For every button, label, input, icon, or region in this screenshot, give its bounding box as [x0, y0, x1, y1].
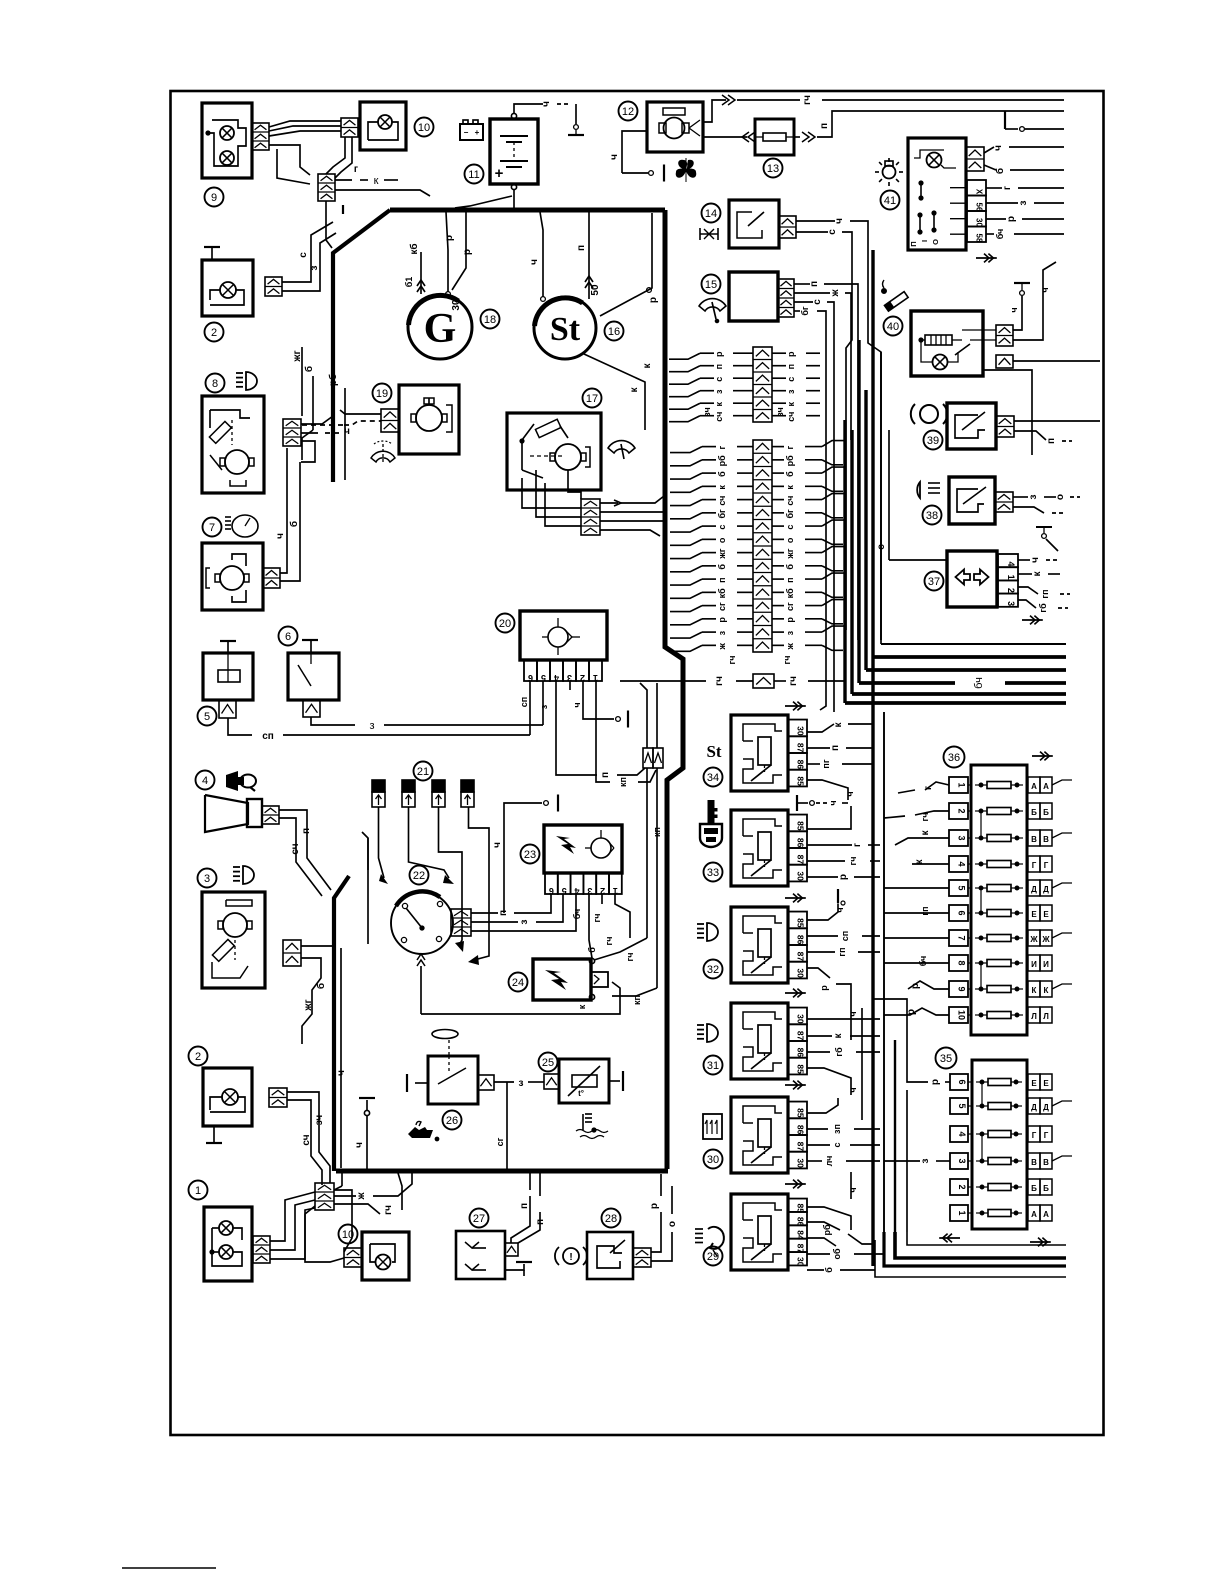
svg-text:1: 1: [957, 1210, 967, 1215]
svg-text:−: −: [464, 128, 469, 137]
svg-text:сп: сп: [840, 931, 850, 941]
svg-text:87: 87: [796, 1142, 806, 1152]
wires to G: [404, 212, 473, 311]
label St for relay 34: [706, 742, 721, 761]
svg-text:б: б: [994, 168, 1006, 174]
svg-text:ч: ч: [275, 533, 286, 539]
svg-text:к: к: [374, 175, 379, 187]
connector X5: [219, 700, 236, 718]
svg-text:30: 30: [796, 968, 806, 978]
connector X27: [505, 1243, 518, 1256]
chevron mark: [785, 702, 806, 711]
svg-text:58: 58: [975, 234, 984, 243]
svg-text:р: р: [785, 617, 795, 623]
svg-text:1: 1: [1006, 575, 1016, 580]
svg-text:ж: ж: [830, 289, 841, 298]
fog lamp icon 29: [695, 1227, 724, 1256]
ground 38: [1036, 527, 1058, 551]
svg-text:Г: Г: [1032, 1131, 1037, 1140]
svg-text:30: 30: [796, 871, 806, 881]
svg-text:п: п: [600, 772, 611, 778]
svg-text:87: 87: [796, 743, 806, 753]
label 15: [702, 275, 721, 294]
relay 29: [731, 1194, 807, 1270]
svg-text:р: р: [714, 351, 724, 357]
svg-text:ч: ч: [848, 1011, 858, 1016]
svg-text:б1: б1: [404, 277, 414, 288]
svg-text:1: 1: [195, 1185, 201, 1197]
battery icon: [460, 120, 483, 140]
svg-text:В: В: [1031, 1158, 1037, 1167]
label 10 lower: [339, 1225, 358, 1244]
svg-text:зч: зч: [314, 1115, 325, 1126]
svg-text:37: 37: [928, 576, 940, 588]
svg-text:3: 3: [1006, 601, 1016, 606]
svg-text:з: з: [1018, 200, 1029, 205]
svg-text:А: А: [1031, 782, 1037, 791]
wires 28 r o: [649, 1174, 678, 1261]
svg-text:жг: жг: [717, 548, 727, 559]
svg-text:кп: кп: [618, 777, 628, 787]
svg-text:к: к: [786, 401, 796, 406]
svg-text:30: 30: [707, 1154, 719, 1166]
svg-text:Л: Л: [1031, 1012, 1037, 1021]
ground 26: [406, 1074, 408, 1092]
svg-text:4: 4: [957, 1131, 967, 1136]
svg-text:+: +: [475, 128, 480, 137]
svg-text:сч: сч: [717, 496, 727, 506]
svg-text:б: б: [315, 983, 327, 989]
svg-text:16: 16: [608, 326, 620, 338]
wires relay 33: [807, 806, 880, 880]
fuse box 35: [950, 1060, 1072, 1229]
connector X9: [252, 123, 269, 150]
horn icon: [226, 771, 256, 791]
svg-text:3: 3: [957, 835, 967, 840]
wire 12 to 13: [703, 95, 1064, 142]
svg-text:с: с: [785, 525, 795, 530]
hazard switch 37: [947, 551, 997, 607]
label 39: [924, 431, 943, 450]
label 34: [704, 768, 723, 787]
svg-text:30: 30: [796, 726, 806, 736]
wires 37: [1018, 557, 1070, 613]
connector X1: [253, 1236, 270, 1263]
label 28: [602, 1209, 621, 1228]
svg-text:сп: сп: [519, 697, 529, 707]
connector X19: [381, 409, 399, 432]
svg-text:гп: гп: [920, 906, 930, 915]
label 3: [198, 869, 217, 888]
svg-text:сч: сч: [714, 412, 724, 422]
chevron mark: [785, 1180, 806, 1189]
label 29: [704, 1247, 723, 1266]
svg-text:гч: гч: [920, 813, 930, 822]
svg-text:с: с: [832, 1142, 842, 1147]
connector X38: [995, 492, 1013, 512]
svg-text:з: з: [785, 630, 795, 635]
svg-text:сч: сч: [301, 1134, 312, 1145]
svg-text:Е: Е: [1043, 910, 1049, 919]
label 16: [605, 322, 624, 341]
svg-text:4: 4: [957, 861, 967, 866]
horn 4: [205, 795, 262, 832]
svg-text:А: А: [1043, 782, 1049, 791]
svg-text:3: 3: [957, 1158, 967, 1163]
label 19: [373, 384, 392, 403]
connector X8: [283, 419, 301, 446]
svg-text:!: !: [569, 1252, 572, 1263]
tail lamp unit 1: [204, 1207, 252, 1281]
connector X6: [303, 700, 320, 717]
svg-text:б: б: [824, 1267, 834, 1273]
wire sp: [228, 718, 530, 742]
connector X14: [779, 216, 796, 238]
connector X25: [544, 1074, 559, 1089]
label 17: [583, 389, 602, 408]
svg-text:41: 41: [884, 195, 896, 207]
svg-text:жг: жг: [785, 548, 795, 559]
svg-text:St: St: [706, 742, 721, 761]
svg-text:30: 30: [451, 299, 462, 311]
battery wires: [455, 101, 584, 208]
svg-text:р: р: [819, 985, 829, 991]
svg-text:ч: ч: [609, 154, 620, 160]
connector stack bottom: [315, 1183, 334, 1210]
wire harness main bundle outline: [333, 210, 683, 1171]
svg-text:ч: ч: [828, 800, 838, 805]
relay 30: [731, 1097, 807, 1173]
svg-text:П: П: [909, 241, 918, 246]
svg-text:I: I: [920, 240, 929, 242]
wire gch: [334, 1173, 402, 1215]
wires from 3: [301, 832, 368, 1044]
svg-text:к: к: [577, 1004, 587, 1009]
svg-text:б: б: [587, 947, 597, 953]
svg-text:85: 85: [796, 1108, 806, 1118]
svg-text:Е: Е: [1043, 1079, 1049, 1088]
svg-text:39: 39: [927, 435, 939, 447]
svg-text:р: р: [786, 351, 796, 357]
svg-text:Е: Е: [1031, 910, 1037, 919]
long wire verticals: [820, 352, 907, 1258]
svg-text:29: 29: [707, 1251, 719, 1263]
label 11: [465, 165, 484, 184]
svg-text:гп: гп: [1040, 589, 1050, 598]
svg-text:Ж: Ж: [1041, 935, 1050, 944]
svg-text:ч: ч: [993, 145, 1004, 151]
svg-text:б: б: [785, 471, 795, 477]
svg-text:13: 13: [767, 163, 779, 175]
heater icon 30: [703, 1114, 722, 1139]
svg-text:23: 23: [524, 849, 536, 861]
wires from 7: [275, 448, 300, 581]
label 14: [702, 204, 721, 223]
icon headlight: [236, 372, 257, 390]
svg-text:с: с: [786, 377, 796, 382]
svg-text:11: 11: [468, 169, 479, 181]
svg-text:гч: гч: [788, 676, 799, 686]
svg-text:к: к: [717, 485, 727, 490]
connector X2l: [269, 1088, 287, 1107]
svg-text:14: 14: [705, 208, 717, 220]
inline connector gch: [620, 674, 845, 688]
main feed wires vertical bundle: [845, 250, 881, 1266]
dipstick oval: [432, 1030, 458, 1057]
label 1: [189, 1181, 208, 1200]
svg-text:сг: сг: [785, 602, 795, 611]
wires 20 cells: [519, 681, 656, 787]
wires 14 ch s: [796, 218, 881, 640]
svg-text:2: 2: [195, 1051, 201, 1063]
connector X2u: [265, 277, 282, 296]
wire p to 27: [511, 1173, 546, 1243]
connector X3: [283, 940, 301, 966]
svg-text:з: з: [309, 265, 320, 270]
connector strip A: [669, 347, 820, 422]
switch unit 5: [203, 653, 253, 700]
svg-text:ж: ж: [785, 643, 795, 651]
svg-text:ч: ч: [529, 259, 540, 265]
wires from 8: [292, 347, 350, 480]
svg-text:п: п: [785, 577, 795, 582]
svg-text:с: с: [298, 252, 309, 258]
label 35: [936, 1048, 957, 1069]
svg-text:30: 30: [796, 1014, 806, 1024]
svg-text:10: 10: [342, 1229, 354, 1241]
svg-text:г: г: [1002, 186, 1013, 190]
wires 40: [983, 262, 1100, 455]
label 30: [704, 1150, 723, 1169]
ground bar 25: [622, 1071, 624, 1091]
spark plugs 21: [372, 780, 474, 807]
footer mark line: [122, 1567, 216, 1569]
svg-text:ч: ч: [848, 1187, 858, 1192]
fuse 13: [755, 119, 794, 155]
svg-text:28: 28: [605, 1213, 617, 1225]
svg-text:В: В: [1043, 1158, 1049, 1167]
svg-text:г: г: [923, 786, 934, 790]
wires relay 32: [807, 904, 880, 1040]
svg-text:32: 32: [707, 964, 719, 976]
svg-text:р: р: [838, 874, 849, 880]
wire s vertical: [876, 430, 947, 560]
svg-text:г: г: [852, 843, 863, 847]
svg-text:рб: рб: [785, 455, 795, 466]
svg-text:В: В: [1031, 835, 1037, 844]
plug wires: [379, 807, 490, 965]
wires into 35: [874, 999, 950, 1163]
svg-text:кп: кп: [632, 995, 642, 1005]
svg-text:кб: кб: [785, 588, 795, 599]
svg-text:А: А: [1031, 1210, 1037, 1219]
svg-text:26: 26: [446, 1115, 458, 1127]
svg-text:жг: жг: [303, 999, 314, 1011]
ground above 2: [204, 247, 220, 260]
svg-text:И: И: [1043, 960, 1049, 969]
svg-text:сг: сг: [495, 1137, 505, 1146]
label 26: [443, 1111, 462, 1130]
svg-text:3: 3: [587, 886, 592, 896]
svg-text:t°: t°: [578, 1089, 584, 1098]
svg-text:ч: ч: [572, 702, 582, 707]
svg-text:87: 87: [796, 1031, 806, 1041]
svg-text:кб: кб: [408, 243, 420, 254]
svg-text:4: 4: [202, 775, 208, 787]
svg-text:21: 21: [417, 766, 429, 778]
wire 9 to 10: [269, 121, 352, 184]
wire ch vertical: [334, 948, 347, 1190]
svg-text:гб: гб: [1038, 603, 1048, 613]
svg-text:Д: Д: [1031, 1103, 1037, 1112]
wire zh: [334, 1173, 412, 1201]
svg-text:86: 86: [796, 1125, 806, 1135]
chevron 41: [976, 254, 997, 263]
connector X7: [263, 568, 280, 588]
svg-text:б: б: [785, 564, 795, 570]
wires 38: [1013, 494, 1080, 513]
ground top right: [1005, 111, 1064, 131]
svg-text:87: 87: [796, 855, 806, 865]
svg-text:ч: ч: [541, 101, 552, 107]
svg-text:ж: ж: [356, 1192, 367, 1201]
svg-text:б: б: [303, 366, 315, 372]
cigarette icon: [882, 280, 909, 311]
svg-text:гч: гч: [714, 676, 725, 686]
ground above 6: [302, 640, 318, 653]
cigarette lighter 40: [911, 311, 996, 376]
lamp unit 10 lower: [362, 1232, 409, 1280]
bus lines right: [845, 644, 1066, 703]
svg-text:з: з: [714, 389, 724, 394]
svg-text:р: р: [930, 1079, 941, 1085]
svg-text:85: 85: [796, 918, 806, 928]
svg-text:п: п: [519, 1203, 530, 1209]
svg-text:Х: Х: [975, 189, 984, 195]
svg-text:7: 7: [209, 522, 215, 534]
voltage regulator 20: [520, 611, 607, 660]
ground above 5: [220, 641, 236, 653]
border frame: [171, 91, 1104, 1435]
svg-text:бч: бч: [918, 956, 928, 967]
connector X17: [522, 470, 600, 535]
wire 26 to 25: [494, 1078, 544, 1169]
svg-text:St: St: [550, 311, 581, 348]
svg-text:г: г: [785, 445, 795, 449]
label 32: [704, 960, 723, 979]
svg-text:о: о: [717, 537, 727, 543]
wire gch to coil: [594, 768, 662, 961]
motor unit 7: [202, 543, 263, 610]
svg-text:Г: Г: [1044, 861, 1049, 870]
svg-text:6: 6: [549, 886, 554, 896]
svg-text:сг: сг: [717, 602, 727, 611]
wiper icon 15: [699, 299, 726, 323]
connector X26: [478, 1075, 494, 1090]
svg-text:G: G: [424, 306, 457, 352]
svg-text:п: п: [830, 745, 841, 751]
svg-text:5: 5: [957, 1103, 967, 1108]
chevron 37: [1022, 616, 1043, 625]
wiper motor 17: [507, 413, 601, 490]
wires 15: [794, 281, 858, 640]
svg-text:г: г: [717, 445, 727, 449]
svg-text:33: 33: [707, 867, 719, 879]
heater motor 12: [647, 102, 703, 152]
low beam icon 32: [697, 923, 718, 941]
relay 34: [731, 715, 807, 791]
svg-text:5: 5: [204, 711, 210, 723]
svg-text:кб: кб: [717, 588, 727, 599]
svg-text:Г: Г: [1032, 861, 1037, 870]
svg-text:рб: рб: [717, 455, 727, 466]
double connector ignition: [640, 683, 663, 768]
svg-text:Д: Д: [1031, 885, 1037, 894]
ground 32: [838, 889, 845, 906]
svg-text:лч: лч: [824, 1156, 834, 1167]
svg-text:87: 87: [796, 952, 806, 962]
svg-text:ч: ч: [492, 842, 503, 848]
svg-text:19: 19: [376, 388, 388, 400]
wires into 36: [884, 782, 949, 1015]
ground 34: [797, 795, 848, 811]
high beam icon 31: [697, 1024, 718, 1042]
svg-text:1: 1: [957, 782, 967, 787]
washer pump 19: [399, 385, 459, 454]
label 23: [521, 845, 540, 864]
wires stack to 1 and 10: [270, 1190, 352, 1262]
svg-text:р: р: [462, 249, 473, 255]
svg-text:27: 27: [473, 1213, 485, 1225]
label 13: [764, 159, 783, 178]
svg-text:+: +: [495, 165, 504, 182]
svg-text:з: з: [519, 1078, 524, 1089]
connector X39: [996, 416, 1014, 437]
svg-text:з: з: [717, 630, 727, 635]
svg-text:4: 4: [574, 886, 579, 896]
wire ch 12: [609, 131, 664, 182]
label 36: [944, 747, 965, 768]
svg-text:Г: Г: [1044, 1131, 1049, 1140]
label 7: [203, 518, 222, 537]
terminal row 23: [545, 873, 622, 896]
svg-text:сч: сч: [786, 412, 796, 422]
svg-text:Б: Б: [1043, 808, 1049, 817]
chevron mark: [785, 1081, 806, 1090]
svg-text:зч: зч: [702, 407, 712, 416]
svg-text:с: с: [714, 377, 724, 382]
svg-text:86: 86: [796, 1048, 806, 1058]
svg-text:с: с: [827, 229, 838, 235]
label 24: [509, 973, 528, 992]
svg-text:3: 3: [204, 873, 210, 885]
wires 41 out: [984, 145, 1064, 239]
distributor 22: [391, 891, 453, 1014]
svg-text:гч: гч: [727, 656, 737, 665]
svg-text:25: 25: [542, 1057, 554, 1069]
svg-text:Б: Б: [1031, 808, 1037, 817]
label 2: [205, 323, 224, 342]
lamp unit 2 lower: [203, 1068, 252, 1126]
svg-text:зч: зч: [775, 407, 785, 416]
wire to harness: [326, 190, 430, 248]
svg-text:50: 50: [590, 284, 601, 296]
label 8: [206, 374, 225, 393]
svg-text:1: 1: [613, 886, 618, 896]
svg-text:гч: гч: [383, 1205, 394, 1215]
wire s z from 2: [282, 222, 336, 291]
battery 11: [490, 119, 538, 184]
